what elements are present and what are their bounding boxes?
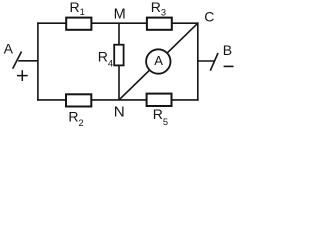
resistor R4 bbox=[114, 45, 123, 66]
wire stub terminal A bbox=[18, 60, 38, 62]
wire R4 to N bbox=[118, 66, 120, 100]
switch slash at terminal A bbox=[13, 52, 22, 69]
svg-text:A: A bbox=[154, 53, 163, 68]
resistor R1 bbox=[66, 18, 91, 30]
wire bottom bus bbox=[37, 99, 199, 101]
svg-text:A: A bbox=[4, 41, 14, 57]
svg-text:M: M bbox=[114, 7, 126, 23]
wire diagonal N to C through ammeter bbox=[119, 23, 198, 100]
ammeter U1 circle bbox=[146, 49, 170, 73]
svg-text:R5: R5 bbox=[153, 106, 168, 127]
svg-text:B: B bbox=[223, 42, 232, 58]
wire right vertical bbox=[197, 22, 199, 100]
resistor R3 bbox=[147, 18, 172, 30]
resistor R2 bbox=[66, 94, 91, 106]
plus polarity mark bbox=[17, 70, 28, 81]
wire left vertical bbox=[37, 22, 39, 100]
svg-text:R4: R4 bbox=[98, 49, 113, 69]
minus polarity mark bbox=[224, 65, 234, 67]
switch slash at terminal B bbox=[210, 53, 218, 71]
resistor R5 bbox=[147, 94, 172, 106]
svg-text:R3: R3 bbox=[151, 0, 166, 17]
svg-text:N: N bbox=[114, 103, 125, 120]
svg-text:R1: R1 bbox=[70, 0, 85, 17]
svg-text:C: C bbox=[204, 8, 214, 24]
wire M to R4 bbox=[118, 23, 120, 45]
svg-text:R2: R2 bbox=[68, 108, 83, 128]
wire stub terminal B bbox=[198, 60, 215, 62]
wire top bus A-to-C bbox=[37, 22, 199, 24]
